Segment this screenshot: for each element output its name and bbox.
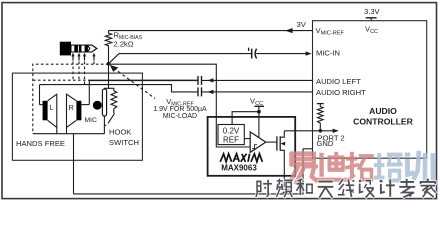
wire bottom ground rail <box>74 149 304 194</box>
audio controller box U2 <box>313 21 427 159</box>
wire comparator sense from junction <box>109 64 251 147</box>
arrow on audio left pointing left <box>208 78 214 82</box>
microphone MIC <box>93 89 107 134</box>
ground symbol under MOSFET <box>277 186 291 192</box>
transistor Q1 (n-channel MOSFET) <box>277 131 285 187</box>
speaker L <box>40 85 57 134</box>
wire comparator output to gate <box>266 141 277 143</box>
label MAXIM logo <box>220 154 262 162</box>
wire MIC-IN <box>110 54 252 63</box>
wire MIC-IN right <box>256 53 306 55</box>
wire mic top bracket <box>104 64 108 89</box>
MAX9063 box U1 <box>208 117 296 176</box>
node mic bias junction <box>107 62 111 66</box>
wire ground drop left <box>73 134 75 194</box>
0.2V REF box <box>218 125 244 145</box>
hook switch SW1 (resistor + switch) <box>104 91 116 125</box>
arrow on VMIC-REF wire pointing left <box>285 28 293 33</box>
wire VMIC-REF <box>109 30 313 32</box>
power VCC (MAX9063) <box>232 106 264 137</box>
watermark small row <box>256 179 436 197</box>
resistor RMIC-BIAS <box>105 31 111 64</box>
dashed cable conductors <box>33 62 109 134</box>
wire AUDIO RIGHT right <box>202 91 313 93</box>
node PORT 2 junction <box>319 129 323 133</box>
hysteresis symbol <box>252 145 257 149</box>
wire ref to comparator <box>244 138 250 140</box>
resistor R2 pull-up on PORT 2 <box>317 104 324 131</box>
capacitor C1 (mic coupling, polarized) <box>249 48 257 59</box>
watermark big row <box>289 151 435 182</box>
wire AUDIO RIGHT left segment from L speaker <box>40 85 198 92</box>
wire drain to PORT 2 <box>284 130 320 132</box>
capacitor C2 (audio left) <box>198 76 202 85</box>
plug contact arrows <box>71 53 95 57</box>
arrow into PORT 2 <box>320 129 339 133</box>
wire AUDIO LEFT right <box>202 79 313 81</box>
watermark small row halo <box>255 178 437 198</box>
arrow into MIC-IN pin <box>306 51 312 55</box>
wire AUDIO LEFT <box>89 79 197 81</box>
callout dashed arrow to mic node <box>110 65 155 99</box>
wire speaker common bus <box>33 133 105 135</box>
op-amp comparator U1A <box>250 132 266 153</box>
plug P1 (3.5mm jack) <box>60 42 97 56</box>
capacitor C3 (audio right) <box>198 87 202 96</box>
hands free box <box>12 73 142 160</box>
arrow on audio right pointing left <box>208 90 214 94</box>
wire GND pin <box>303 148 313 150</box>
power 3.3V (controller VCC) <box>366 18 377 21</box>
speaker R <box>67 80 90 133</box>
